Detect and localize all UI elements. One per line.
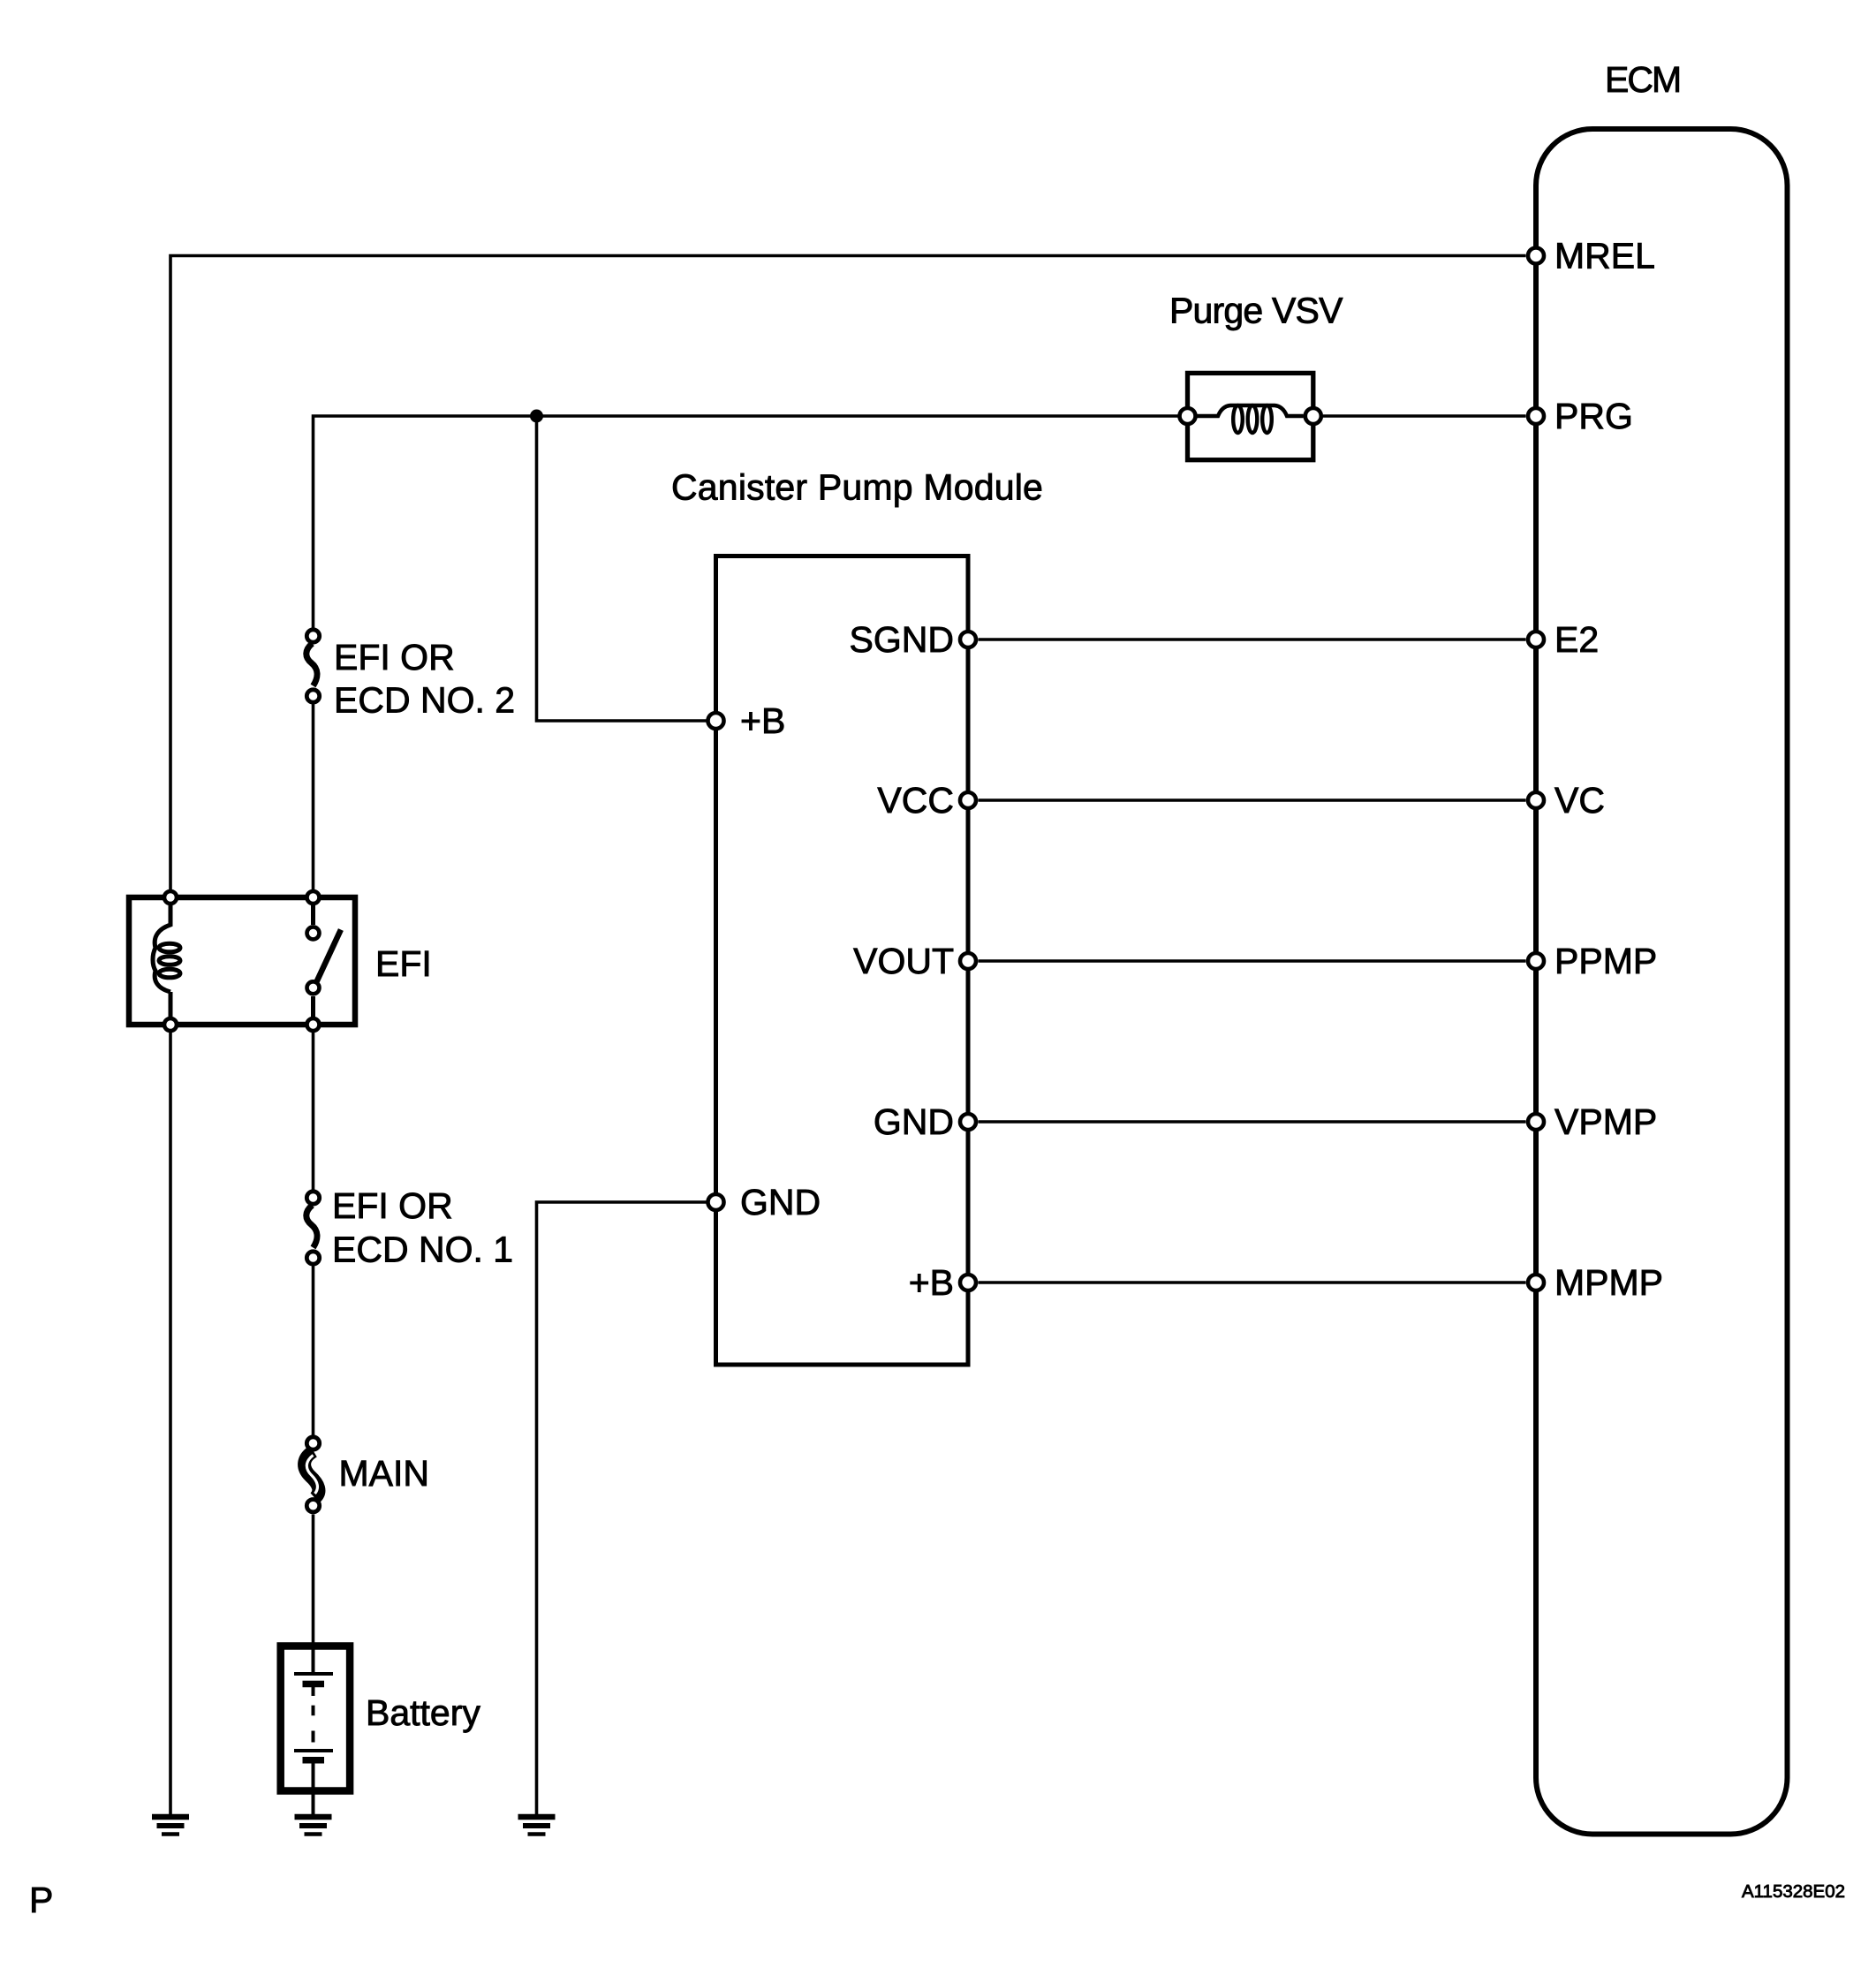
fusible link MAIN (305, 1437, 320, 1512)
pin VOUT (960, 953, 976, 969)
svg-text:PPMP: PPMP (1555, 941, 1657, 981)
fuse F1 EFI OR ECD NO. 1 (306, 1192, 320, 1264)
svg-text:GND: GND (874, 1101, 954, 1142)
wire left vertical to ground (169, 1025, 172, 1814)
svg-text:VOUT: VOUT (853, 941, 954, 981)
pin GND right (960, 1114, 976, 1130)
wire PRG net right segment (1323, 414, 1526, 418)
ground left (152, 1817, 189, 1835)
pin +B right (960, 1275, 976, 1290)
wire fuse2 to relay (312, 705, 315, 898)
svg-text:PRG: PRG (1555, 396, 1633, 436)
svg-text:ECD NO. 2: ECD NO. 2 (334, 680, 515, 721)
wire fuse1 to MAIN (312, 1267, 315, 1435)
svg-text:EFI OR: EFI OR (334, 637, 455, 677)
svg-text:ECM: ECM (1605, 59, 1680, 100)
Canister Pump Module box M1 (716, 556, 969, 1366)
wire MREL net (170, 256, 1526, 898)
svg-text:Canister Pump Module: Canister Pump Module (671, 467, 1043, 508)
pin SGND (960, 632, 976, 647)
svg-text:E2: E2 (1555, 619, 1599, 660)
svg-text:Battery: Battery (366, 1692, 480, 1733)
relay EFI K1 (129, 891, 355, 1031)
svg-text:MAIN: MAIN (339, 1453, 430, 1494)
svg-text:MPMP: MPMP (1555, 1262, 1663, 1303)
wire VOUT to PPMP (979, 959, 1526, 963)
pin VC (1528, 792, 1544, 808)
pin PRG (1528, 408, 1544, 424)
svg-text:A115328E02: A115328E02 (1742, 1881, 1845, 1902)
svg-text:EFI: EFI (375, 943, 432, 984)
svg-text:SGND: SGND (850, 619, 954, 660)
svg-text:Purge VSV: Purge VSV (1169, 291, 1343, 331)
wire +B to MPMP (979, 1281, 1526, 1284)
wire +B branch (537, 416, 707, 721)
pin VCC (960, 792, 976, 808)
pin MREL (1528, 248, 1544, 264)
wire SGND to E2 (979, 638, 1526, 641)
relay switch (311, 897, 315, 925)
pin VSV right (1305, 408, 1321, 424)
wire PRG net left segment (314, 416, 1178, 628)
pin MPMP (1528, 1275, 1544, 1290)
battery BAT1 (281, 1646, 350, 1815)
pin VSV left (1180, 408, 1196, 424)
svg-text:+B: +B (740, 700, 785, 741)
wire VCC to VC (979, 798, 1526, 802)
svg-text:GND: GND (740, 1182, 821, 1222)
svg-text:P: P (29, 1880, 53, 1920)
ground module (518, 1817, 556, 1835)
Purge VSV V1 (1188, 373, 1313, 459)
svg-text:VPMP: VPMP (1555, 1101, 1657, 1142)
pin E2 (1528, 632, 1544, 647)
wire MAIN to battery (312, 1515, 315, 1646)
svg-text:+B: +B (909, 1262, 954, 1303)
svg-text:MREL: MREL (1555, 236, 1655, 276)
svg-text:ECD NO. 1: ECD NO. 1 (332, 1230, 513, 1270)
node junction dot (530, 410, 543, 423)
fuse F2 EFI OR ECD NO. 2 (306, 630, 320, 702)
ECM box U1 (1536, 129, 1788, 1835)
pin +B left (708, 713, 724, 729)
relay coil (153, 897, 170, 992)
pin GND left (708, 1194, 724, 1210)
svg-text:VCC: VCC (877, 780, 954, 821)
pin PPMP (1528, 953, 1544, 969)
relay pins (164, 891, 177, 904)
pin VPMP (1528, 1114, 1544, 1130)
wire relay to fuse1 (312, 1025, 315, 1190)
svg-text:VC: VC (1555, 780, 1605, 821)
wire GND branch (537, 1202, 707, 1814)
svg-text:EFI OR: EFI OR (332, 1185, 453, 1226)
ground battery (295, 1817, 332, 1835)
wire GND to VPMP (979, 1120, 1526, 1124)
